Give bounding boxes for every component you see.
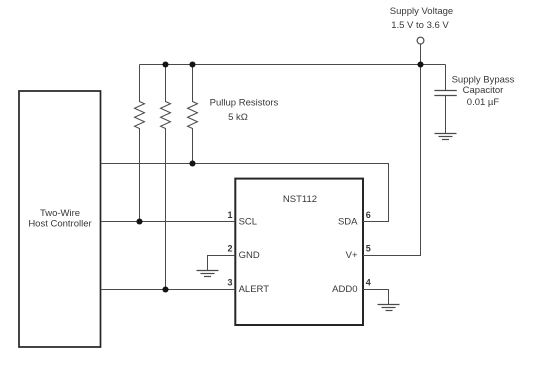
resistor R2	[161, 65, 171, 290]
svg-text:Supply Voltage: Supply Voltage	[390, 6, 453, 17]
svg-text:Two-Wire: Two-Wire	[40, 208, 80, 219]
svg-text:SCL: SCL	[239, 216, 257, 227]
svg-text:1.5 V to 3.6 V: 1.5 V to 3.6 V	[391, 20, 449, 31]
wire GND pin 2 to ground	[208, 256, 236, 271]
pin 3 ALERT	[227, 278, 269, 295]
wire ALERT from host to pin 3	[101, 289, 236, 291]
wire SDA bus from host to pin 6	[101, 164, 389, 222]
svg-text:Supply Bypass: Supply Bypass	[452, 74, 515, 85]
svg-text:GND: GND	[239, 250, 260, 261]
IC U1 NST112	[235, 179, 363, 325]
svg-text:3: 3	[227, 278, 232, 288]
wire SCL from host to pin 1	[101, 221, 236, 223]
svg-text:V+: V+	[346, 250, 358, 261]
resistor R1	[135, 65, 145, 222]
junction SCL at R1	[136, 218, 142, 224]
svg-text:0.01 µF: 0.01 µF	[467, 97, 500, 108]
svg-text:1: 1	[227, 210, 232, 220]
svg-text:SDA: SDA	[338, 216, 358, 227]
wire supply terminal to rail	[420, 44, 422, 65]
svg-text:Capacitor: Capacitor	[463, 85, 504, 96]
capacitor C1 0.01uF	[434, 65, 514, 134]
wire supply top rail	[140, 64, 446, 66]
ground at GND pin	[197, 271, 219, 277]
svg-text:4: 4	[366, 278, 371, 288]
ground at capacitor	[435, 134, 457, 140]
junction ALERT at R2	[162, 286, 168, 292]
label pullup resistors	[210, 98, 279, 124]
junction top rail at supply	[417, 61, 423, 67]
svg-text:ADD0: ADD0	[332, 284, 357, 295]
svg-text:6: 6	[366, 210, 371, 220]
pin 4 ADD0	[332, 278, 371, 295]
wire V+ pin 5 to supply rail	[363, 65, 421, 256]
pin 6 SDA	[338, 210, 371, 228]
pin 1 SCL	[227, 210, 257, 228]
block Two-Wire Host Controller	[19, 91, 101, 347]
junction top rail at R3	[189, 61, 195, 67]
svg-text:Pullup Resistors: Pullup Resistors	[210, 98, 279, 109]
svg-text:ALERT: ALERT	[239, 284, 270, 295]
wire ADD0 pin 4 to ground	[363, 290, 389, 305]
junction top rail at R2	[162, 61, 168, 67]
pin 2 GND	[227, 244, 259, 261]
svg-text:5: 5	[366, 244, 371, 254]
junction SDA bus at R3	[189, 160, 195, 166]
svg-text:5 kΩ: 5 kΩ	[228, 112, 248, 123]
svg-text:Host Controller: Host Controller	[28, 218, 91, 229]
ground at ADD0	[378, 305, 400, 311]
supply voltage terminal	[390, 6, 453, 44]
svg-text:NST112: NST112	[283, 194, 317, 205]
pin 5 V+	[346, 244, 371, 261]
resistor R3	[188, 65, 198, 164]
svg-text:2: 2	[227, 244, 232, 254]
